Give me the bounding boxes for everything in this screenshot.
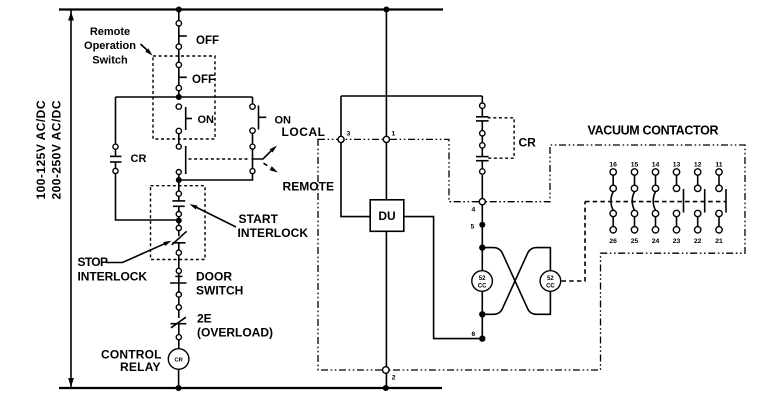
wire to bottom bus [178, 369, 180, 388]
wire node4 to node5 to X [481, 205, 483, 248]
node 4 [479, 199, 485, 205]
svg-text:16: 16 [609, 162, 617, 169]
column 14-24 [652, 162, 660, 246]
wire main branch top segment [178, 10, 180, 21]
arrowhead LOCAL [270, 146, 277, 153]
wire bottom bus [59, 387, 442, 389]
svg-text:2: 2 [392, 375, 396, 382]
wire to door switch [178, 255, 180, 268]
contact STOP INTERLOCK [172, 231, 187, 250]
svg-text:24: 24 [652, 238, 660, 245]
switch OFF 1 [179, 26, 187, 44]
wire center vertical to DU [385, 10, 387, 200]
svg-text:11: 11 [715, 162, 722, 169]
coil 52CC left [472, 271, 493, 292]
wire selector to junction [178, 175, 180, 180]
arrowhead REMOTE [270, 166, 278, 172]
svg-text:START: START [239, 212, 279, 226]
pushbutton ON right [259, 106, 267, 130]
contact CR (capacitor style) [110, 149, 122, 168]
svg-text:200-250V AC/DC: 200-250V AC/DC [50, 100, 64, 199]
contact circles CR branch right [480, 103, 485, 108]
svg-text:INTERLOCK: INTERLOCK [78, 270, 148, 284]
contact CR lower [476, 148, 489, 169]
svg-text:14: 14 [652, 162, 660, 169]
coil 52CC right [540, 271, 561, 292]
wire [178, 134, 180, 144]
svg-text:15: 15 [631, 162, 639, 169]
svg-text:DU: DU [378, 209, 395, 223]
arrow start interlock [196, 207, 237, 227]
X cross path A [482, 248, 550, 315]
svg-text:OFF: OFF [196, 35, 219, 47]
svg-text:CR: CR [131, 153, 147, 165]
wire CR branch down and right [116, 174, 179, 220]
arrow down on left rail [68, 378, 74, 387]
junction top bus / main branch [176, 7, 182, 13]
column 11-21 [715, 162, 726, 246]
wire DU right output [404, 217, 483, 339]
svg-text:Switch: Switch [92, 55, 128, 67]
selector contact left [185, 146, 187, 174]
pin dot 5 [479, 222, 485, 228]
svg-text:5: 5 [471, 224, 475, 231]
wire [252, 133, 254, 144]
junction X bottom [479, 311, 485, 317]
svg-text:CR: CR [519, 136, 537, 150]
contact circles main branch [176, 21, 181, 26]
svg-text:12: 12 [694, 162, 702, 169]
dashed mechanical link 52CC to contacts [562, 202, 586, 281]
control relay CR coil [168, 349, 189, 370]
wire [178, 340, 180, 349]
svg-text:CC: CC [478, 283, 487, 289]
dash-dot control unit boundary [318, 139, 745, 370]
wire [178, 49, 180, 62]
svg-text:26: 26 [609, 238, 617, 245]
wire right branch to junction [181, 174, 253, 180]
column 13-23 [673, 162, 684, 246]
column 15-25 [631, 162, 639, 246]
wire junction to start interlock [178, 180, 180, 191]
wire to mid bus [178, 91, 180, 97]
arrow up on left rail [68, 12, 74, 21]
junction bottom bus / center vertical [383, 385, 389, 391]
svg-text:VACUUM CONTACTOR: VACUUM CONTACTOR [588, 124, 719, 138]
wire mid bus [116, 96, 253, 98]
junction mid bus [176, 94, 182, 100]
svg-text:STOP: STOP [78, 255, 109, 269]
node 3 [338, 136, 344, 142]
contact CR upper [476, 108, 489, 130]
svg-text:21: 21 [715, 238, 723, 245]
pushbutton ON left [186, 107, 192, 130]
arrow stop interlock [106, 243, 166, 262]
dashed box remote operation switch [153, 56, 215, 139]
wire CR branch left [115, 97, 117, 144]
svg-text:1: 1 [392, 131, 396, 138]
svg-text:2E: 2E [197, 312, 212, 326]
svg-text:DOOR: DOOR [196, 270, 232, 284]
selector blade solid (LOCAL) [252, 151, 272, 159]
junction bottom bus [176, 385, 182, 391]
svg-text:CC: CC [546, 283, 555, 289]
junction top bus / center vertical [383, 7, 389, 13]
junction node 6 [479, 335, 485, 341]
contact DOOR SWITCH [170, 274, 187, 293]
wire left rail [70, 10, 72, 389]
arrow to remote operation switch box [141, 44, 148, 51]
junction CR branch join [178, 217, 180, 226]
switch OFF 2 [179, 68, 187, 86]
dashed selector link [189, 158, 250, 160]
svg-text:SWITCH: SWITCH [196, 283, 243, 297]
svg-text:RELAY: RELAY [120, 360, 161, 374]
junction X top [479, 244, 485, 250]
wire node3 vertical [341, 96, 370, 217]
selector contact right vertical [252, 149, 254, 168]
svg-text:Operation: Operation [84, 40, 136, 52]
DU unit box [370, 200, 404, 232]
svg-text:4: 4 [472, 207, 476, 214]
svg-text:REMOTE: REMOTE [283, 180, 335, 194]
X cross path B [482, 248, 550, 315]
svg-text:LOCAL: LOCAL [282, 125, 326, 139]
svg-text:Remote: Remote [90, 26, 130, 38]
dashed contact actuation line [585, 201, 726, 203]
contact 2E overload [171, 310, 187, 335]
svg-text:(OVERLOAD): (OVERLOAD) [197, 325, 273, 339]
svg-text:ON: ON [198, 114, 215, 126]
svg-text:23: 23 [673, 238, 681, 245]
wire DU bottom to bottom bus [385, 231, 387, 388]
wire CR contact branch [481, 96, 483, 103]
svg-text:25: 25 [631, 238, 639, 245]
svg-text:CR: CR [174, 357, 183, 363]
wire to node 4 [481, 174, 483, 198]
svg-text:52: 52 [547, 276, 554, 282]
svg-text:100-125V AC/DC: 100-125V AC/DC [34, 100, 48, 199]
svg-text:13: 13 [673, 162, 681, 169]
svg-text:OFF: OFF [192, 74, 215, 86]
wire [481, 136, 483, 143]
selector blade dashed (REMOTE) [264, 163, 271, 167]
node 1 [383, 136, 389, 142]
dashed bracket CR [488, 118, 514, 158]
wire right ON branch drop [252, 97, 254, 104]
wire [178, 297, 180, 305]
wire left 52CC branch [481, 248, 483, 271]
wire mid bus right (node3 to CR contact branch) [341, 95, 482, 97]
contact START INTERLOCK [172, 196, 185, 211]
svg-text:6: 6 [472, 331, 476, 338]
svg-text:22: 22 [694, 238, 702, 245]
column 16-26 [609, 162, 617, 246]
svg-text:INTERLOCK: INTERLOCK [238, 226, 309, 240]
wire top bus [59, 8, 443, 10]
node 2 [383, 367, 390, 374]
column 12-22 [694, 162, 705, 246]
dashed box interlocks [151, 186, 206, 260]
svg-text:3: 3 [347, 131, 351, 138]
junction below selector [176, 177, 182, 183]
vacuum contactor terminal columns [609, 162, 726, 246]
svg-text:52: 52 [479, 276, 486, 282]
